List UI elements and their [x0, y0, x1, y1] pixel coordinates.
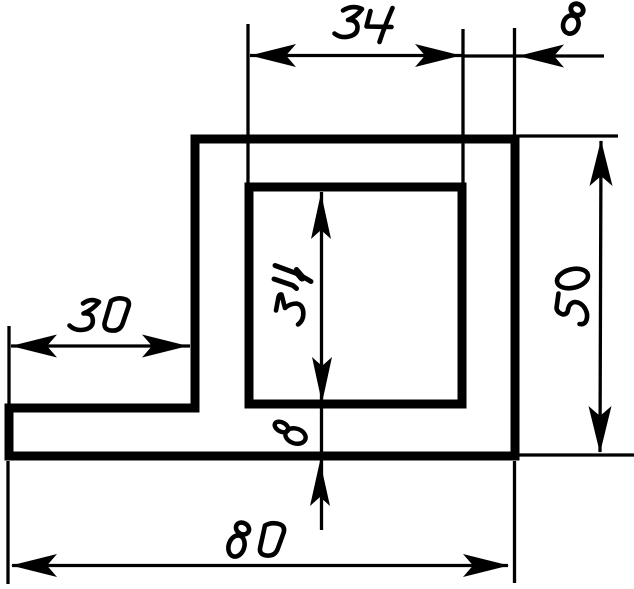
dimension line 80 bottom [12, 564, 508, 567]
label 80 bottom [226, 520, 284, 558]
label 8 top [561, 2, 586, 36]
inner square hole [249, 187, 462, 404]
arrow 34-mid bottom [312, 357, 332, 403]
arrow 30 right [142, 335, 188, 358]
label 50 right (rotated) [555, 266, 590, 325]
dimension line 50 right [600, 141, 601, 452]
arrow 34-top right [415, 44, 461, 67]
extension line left above flange (x=9) [7, 326, 10, 404]
profile outline [9, 139, 515, 456]
dimension line 34/8 middle vertical [320, 192, 323, 530]
label 34 middle (rotated) [274, 266, 311, 325]
label 30 [70, 298, 129, 330]
extension line top for 50 (y=136) [519, 134, 618, 137]
extension line bottom for 50 (y=455) [519, 453, 634, 456]
extension line bottom-left (x=8) [6, 461, 9, 584]
extension line right of inner square (x=463) [461, 29, 464, 187]
arrow 80 left [11, 554, 57, 577]
dimension line 8 top [463, 54, 604, 57]
arrow 50 top [590, 140, 613, 186]
extension line above outer right corner (x=514.5) [513, 28, 516, 139]
arrow 34-top left [250, 44, 296, 67]
label 34 top [335, 7, 393, 42]
extension line left of inner square (x=248) [246, 24, 249, 190]
dimension line 30 [11, 344, 190, 347]
extension line bottom-right (x=514.5) [513, 461, 516, 583]
arrow 50 bottom [589, 406, 612, 453]
arrow 8-top [518, 45, 564, 68]
arrow 34-mid top [311, 193, 331, 239]
arrow 8-mid up (below bottom edge) [310, 461, 330, 506]
arrow 30 left [11, 335, 57, 358]
label 8 middle (rotated) [273, 420, 308, 447]
arrow 80 right [463, 554, 509, 577]
dimension line 34 top [250, 54, 463, 57]
